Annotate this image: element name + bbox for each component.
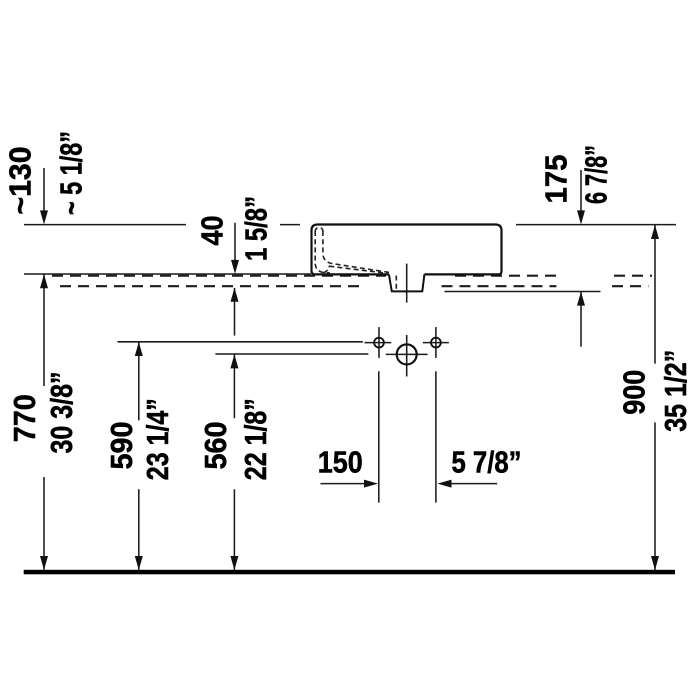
- svg-text:22 1/8”: 22 1/8”: [238, 398, 273, 480]
- svg-text:590: 590: [104, 422, 139, 470]
- svg-text:35 1/2”: 35 1/2”: [658, 350, 693, 432]
- svg-text:5 7/8”: 5 7/8”: [452, 445, 522, 480]
- svg-text:770: 770: [7, 394, 42, 442]
- svg-text:175: 175: [539, 155, 574, 204]
- svg-text:6 7/8”: 6 7/8”: [579, 145, 614, 204]
- svg-text:900: 900: [617, 370, 652, 415]
- svg-text:150: 150: [318, 445, 363, 480]
- svg-text:560: 560: [198, 422, 233, 470]
- svg-text:23 1/4”: 23 1/4”: [140, 398, 175, 480]
- svg-text:~ 5 1/8”: ~ 5 1/8”: [54, 131, 89, 215]
- svg-text:40: 40: [195, 216, 230, 246]
- svg-text:~130: ~130: [3, 147, 38, 215]
- svg-text:30 3/8”: 30 3/8”: [44, 372, 79, 454]
- svg-text:1 5/8”: 1 5/8”: [239, 196, 274, 261]
